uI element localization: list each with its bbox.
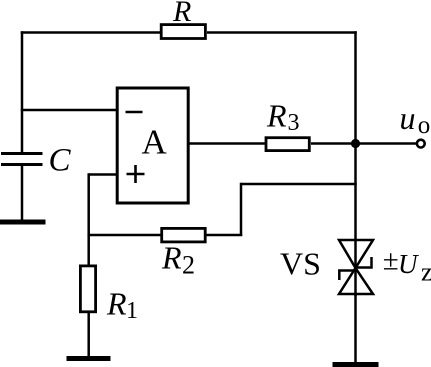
wire right vertical upper (354, 31, 357, 296)
ground under C (0, 220, 46, 225)
svg-text:z: z (421, 258, 431, 287)
svg-text:A: A (142, 123, 168, 162)
node output junction (351, 139, 360, 148)
capacitor C (1, 154, 43, 165)
svg-text:VS: VS (280, 246, 321, 282)
wire zener to ground (354, 294, 357, 363)
resistor R1 (80, 266, 95, 312)
svg-text:u: u (400, 100, 416, 136)
ground under R1 (67, 356, 111, 361)
output terminal circle (417, 140, 425, 148)
resistor R2 (162, 228, 206, 242)
wire R2 right (207, 234, 243, 237)
wire R2 left (87, 234, 161, 237)
svg-text:R2: R2 (161, 240, 195, 280)
wire R1 to ground (87, 313, 90, 357)
wire left vertical (21, 31, 24, 155)
svg-text:C: C (49, 143, 72, 179)
wire capacitor to ground (21, 165, 24, 221)
wire left vertical lower (87, 173, 90, 266)
svg-text:R3: R3 (266, 98, 300, 137)
wire non-inverting input (89, 173, 119, 176)
resistor R (161, 25, 205, 39)
wire feedback vertical (240, 183, 243, 236)
wire node to terminal (356, 142, 417, 145)
wire feedback horizontal upper (241, 183, 357, 186)
op-amp A (117, 88, 188, 203)
resistor R3 (266, 138, 309, 151)
svg-text:±: ± (383, 244, 399, 276)
wire op-amp output (188, 142, 266, 145)
svg-text:o: o (418, 112, 431, 139)
wire inverting-input branch (21, 109, 119, 112)
svg-text:R1: R1 (106, 285, 138, 324)
ground right (333, 362, 379, 367)
svg-text:U: U (398, 249, 419, 279)
svg-text:R: R (172, 0, 191, 28)
wire top-right horizontal (207, 31, 357, 34)
zener diode pair VS (339, 240, 373, 294)
wire R3 to node (311, 142, 356, 145)
wire top-left horizontal (21, 31, 161, 34)
